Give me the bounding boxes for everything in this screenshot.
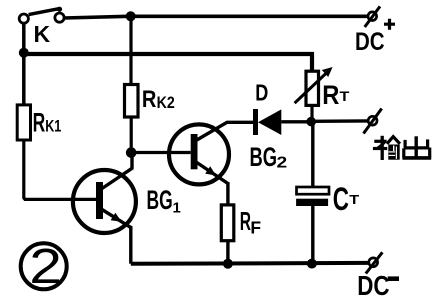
wire diode to RT junction — [281, 120, 308, 123]
svg-text:K2: K2 — [157, 94, 175, 112]
resistor RK2 — [125, 85, 139, 118]
svg-text:T: T — [349, 193, 359, 207]
terminal DC+ — [365, 6, 380, 27]
switch K — [19, 7, 64, 29]
label CT — [333, 181, 359, 217]
terminal output — [364, 109, 382, 134]
svg-text:1: 1 — [173, 200, 181, 217]
node junction left (second rail tap) — [19, 48, 29, 58]
wire BG2 base lead — [134, 151, 191, 154]
label BG1 — [147, 185, 181, 216]
wire bottom rail DC- bus — [131, 261, 369, 266]
transistor BG1 — [73, 154, 136, 233]
wire top rail DC+ bus — [64, 16, 368, 18]
wire BG1 emitter to bottom rail — [129, 226, 132, 264]
wire output lead — [313, 119, 368, 123]
svg-text:K: K — [34, 21, 51, 47]
svg-text:2: 2 — [277, 153, 288, 171]
label D — [255, 80, 268, 106]
diode D — [253, 109, 281, 135]
svg-text:R: R — [33, 108, 46, 138]
svg-text:R: R — [322, 81, 339, 111]
resistor RF — [221, 205, 234, 241]
label DC- — [357, 271, 399, 302]
svg-text:BG: BG — [147, 185, 173, 215]
node junction RF / bottom rail — [223, 259, 233, 269]
svg-text:F: F — [250, 218, 261, 238]
svg-text:DC: DC — [357, 271, 389, 302]
label BG2 — [250, 141, 288, 171]
label RK1 — [33, 108, 62, 138]
figure number circled 2 — [21, 239, 67, 293]
svg-text:D: D — [255, 80, 268, 106]
wire RK2 bottom lead — [130, 117, 133, 150]
wire left rail — [22, 23, 26, 105]
wire RT bottom lead — [310, 105, 313, 120]
thermistor RT — [295, 67, 333, 105]
resistor RK1 — [17, 105, 30, 140]
label RK2 — [142, 85, 175, 112]
node junction BG1 collector / BG2 base — [126, 147, 137, 158]
svg-text:C: C — [333, 181, 349, 217]
svg-text:BG: BG — [250, 141, 278, 171]
capacitor CT — [296, 124, 329, 264]
wire second rail to RT — [25, 54, 313, 71]
svg-text:T: T — [340, 89, 351, 105]
label K — [34, 21, 51, 47]
terminal DC- — [366, 252, 383, 273]
label DC+ — [355, 19, 395, 56]
svg-text:K1: K1 — [45, 117, 61, 136]
node junction top rail / RK2 — [126, 11, 136, 21]
node junction CT / bottom rail — [307, 259, 317, 269]
wire BG2 emitter to RF — [226, 182, 229, 205]
wire RF bottom lead — [226, 241, 229, 264]
wire RK2 top lead — [129, 16, 132, 84]
svg-text:DC: DC — [355, 27, 385, 55]
label RF — [240, 207, 262, 238]
wire RK1 bottom to BG1 base — [24, 140, 96, 199]
svg-text:R: R — [142, 85, 157, 112]
transistor BG2 — [169, 122, 254, 184]
svg-text:2: 2 — [29, 239, 62, 293]
label RT — [322, 81, 350, 111]
label 输出 — [373, 136, 431, 160]
node junction RT / diode / CT / output — [306, 117, 316, 127]
